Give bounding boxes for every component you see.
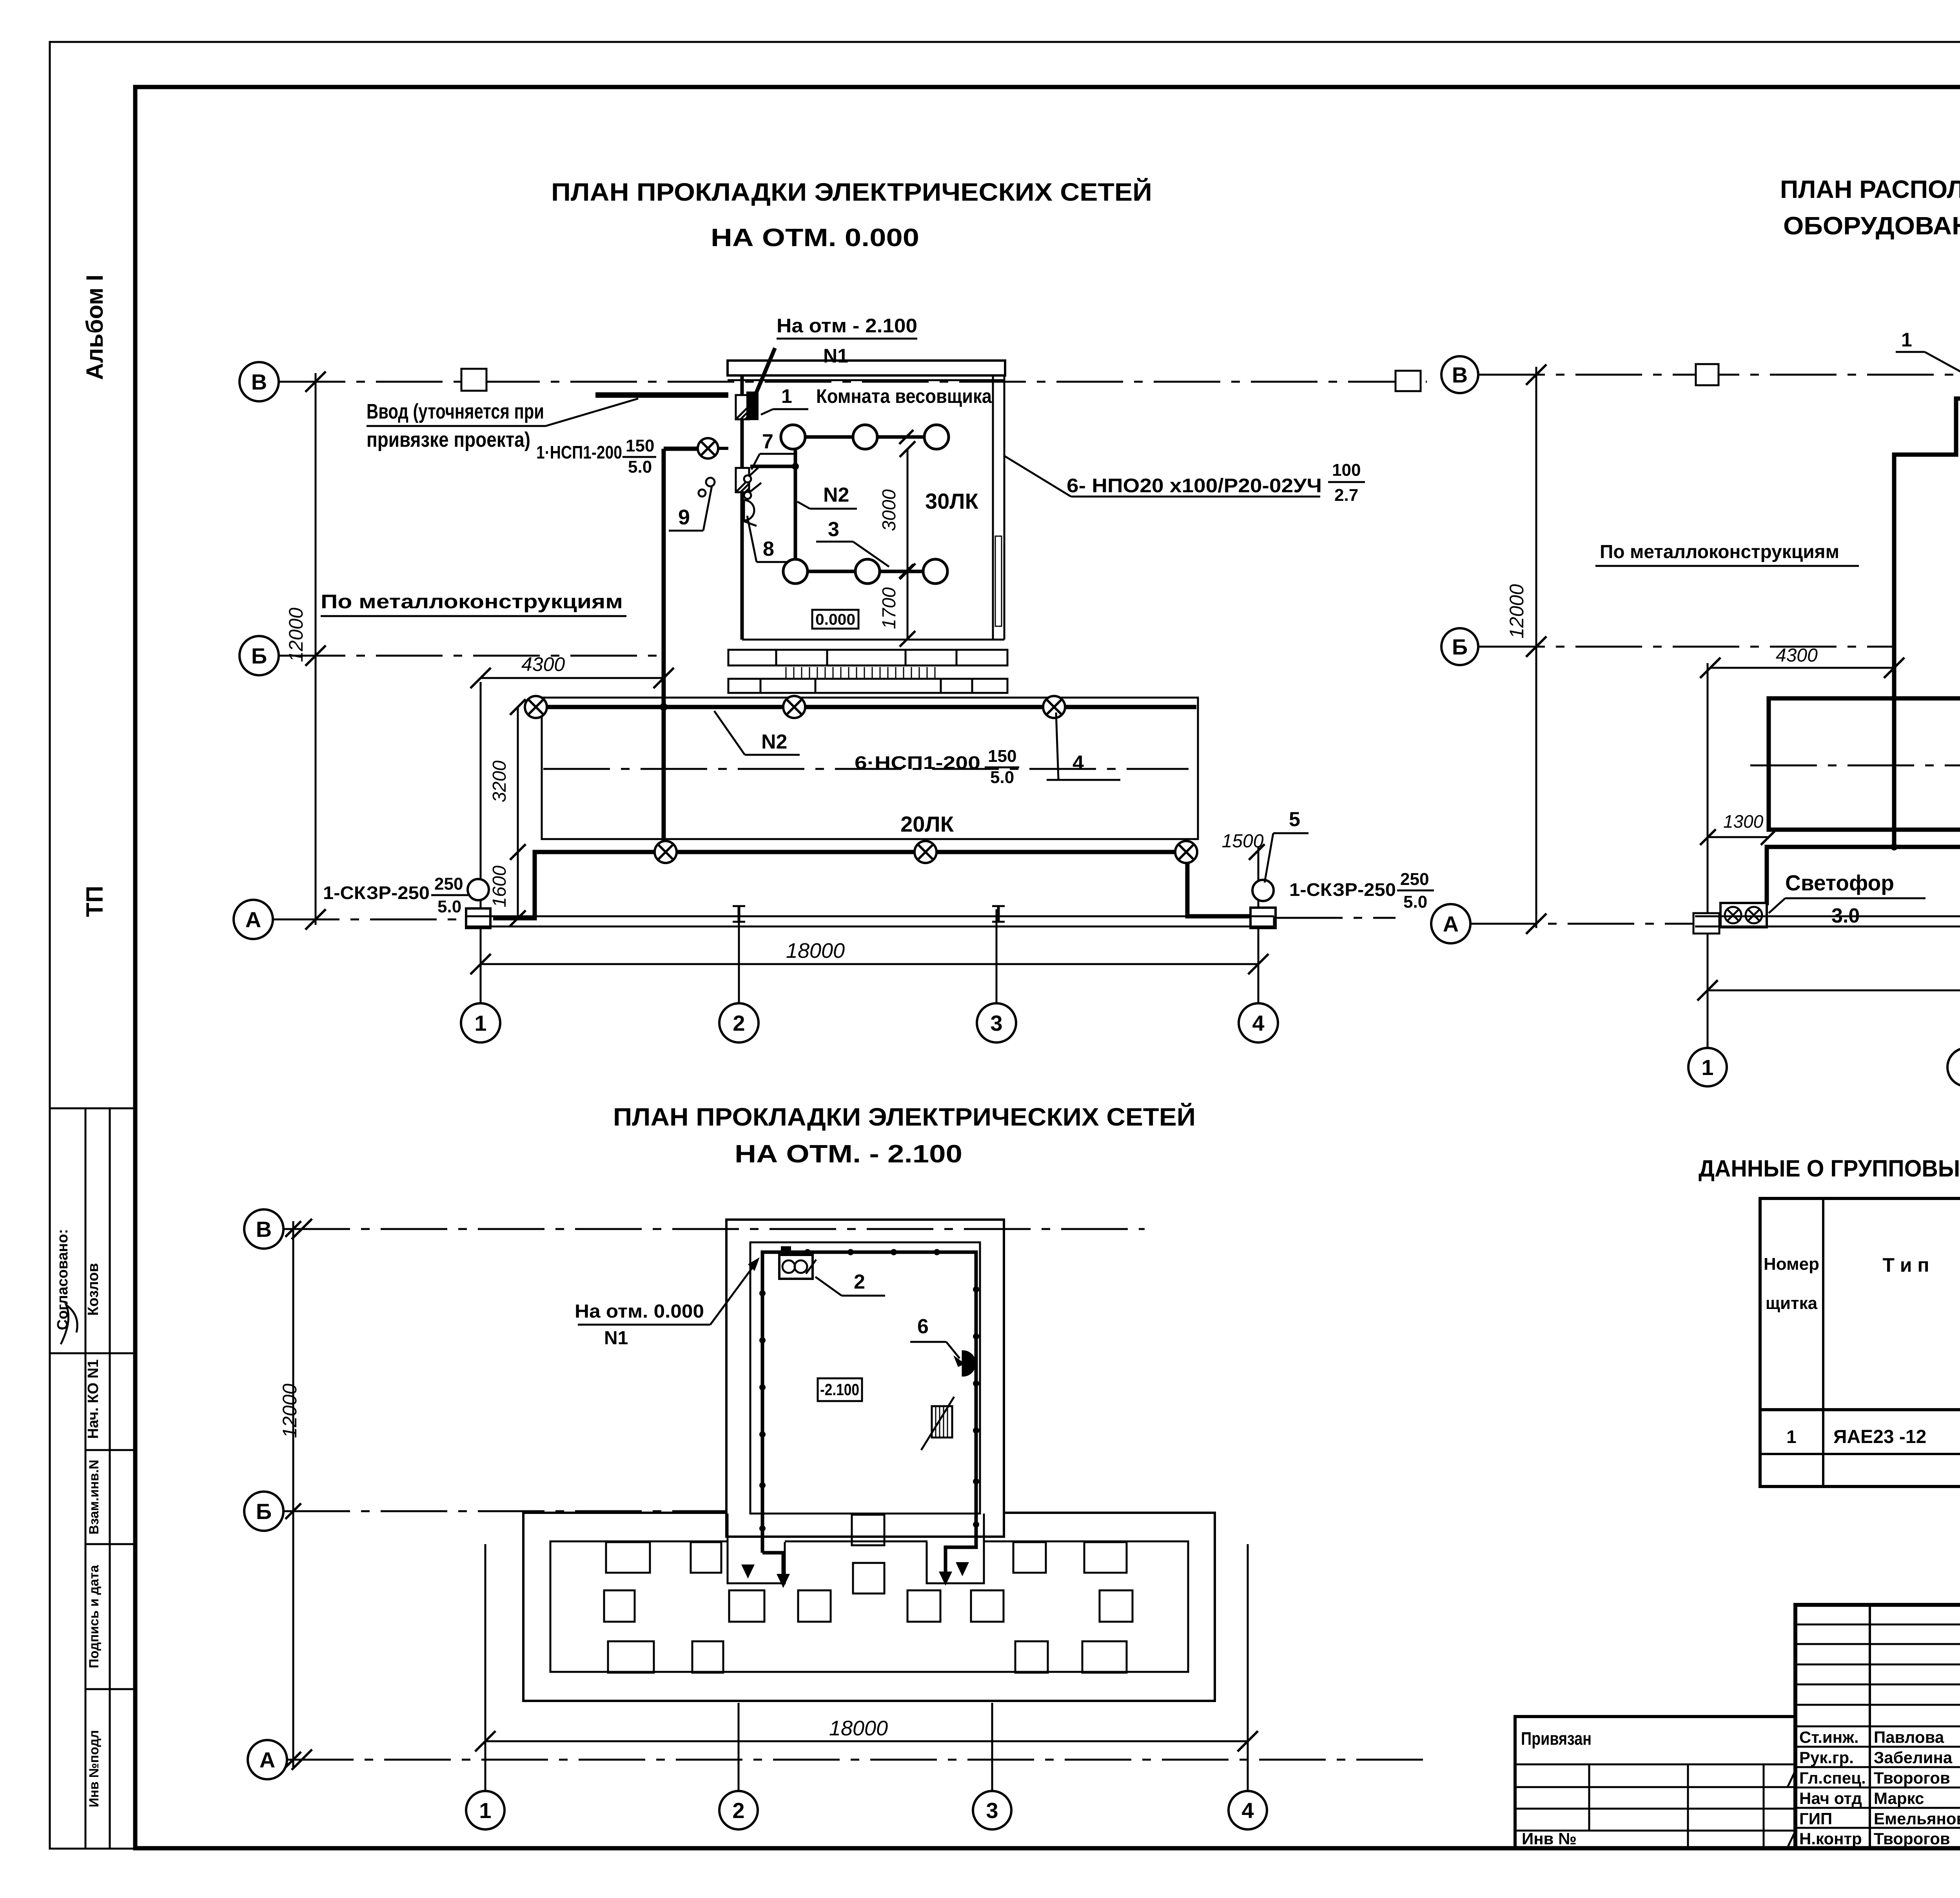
dimension 12000 plan3 bbox=[292, 1221, 294, 1767]
axis A plan2 bbox=[1431, 904, 1470, 943]
svg-text:N2: N2 bbox=[761, 731, 787, 753]
axis B plan1 bbox=[240, 636, 279, 675]
feeder cable riser plan2 bbox=[1894, 399, 1960, 847]
svg-text:1600: 1600 bbox=[489, 865, 510, 907]
column axis 1 plan3 bbox=[485, 1544, 486, 1791]
svg-text:250: 250 bbox=[434, 874, 463, 894]
cable loop wire plan3 bbox=[762, 1252, 976, 1572]
platform wire upper N2 bbox=[536, 705, 1196, 709]
svg-text:12000: 12000 bbox=[279, 1383, 301, 1438]
svg-text:12000: 12000 bbox=[1506, 584, 1528, 638]
level mark 0.000 plan1 bbox=[812, 610, 858, 629]
svg-text:Козлов: Козлов bbox=[85, 1263, 102, 1316]
dimension 3200 bbox=[517, 707, 519, 852]
privyazan box bbox=[1515, 1717, 1795, 1848]
svg-text:1-СКЗР-250: 1-СКЗР-250 bbox=[323, 883, 430, 903]
svg-text:1300: 1300 bbox=[1723, 811, 1764, 832]
svg-text:5.0: 5.0 bbox=[437, 897, 461, 916]
svg-text:150: 150 bbox=[626, 436, 654, 455]
axis B plan2 bbox=[1441, 628, 1478, 665]
svg-text:N1: N1 bbox=[823, 345, 848, 367]
svg-text:4300: 4300 bbox=[1776, 645, 1818, 666]
column axis 4 plan1 bbox=[1258, 847, 1259, 1003]
axis V plan3 bbox=[244, 1209, 283, 1249]
svg-text:2: 2 bbox=[732, 1798, 744, 1823]
svg-text:6- НПО20 х100/Р20-02УЧ: 6- НПО20 х100/Р20-02УЧ bbox=[1067, 475, 1322, 497]
sidebar stamp column bbox=[50, 1108, 135, 1848]
foundation pads row top bbox=[606, 1542, 650, 1573]
SKZR device right bbox=[1252, 880, 1274, 901]
window right wall plan1 bbox=[995, 536, 1002, 626]
pit inner wall plan3 bbox=[550, 1541, 1188, 1672]
svg-text:Забелина: Забелина bbox=[1874, 1748, 1953, 1767]
axis V plan1 bbox=[240, 362, 279, 401]
level mark -2.100 bbox=[818, 1378, 862, 1401]
dimension 1700 room bbox=[907, 571, 909, 639]
column axis 2 plan1 bbox=[738, 909, 740, 1003]
dimension 18000 plan3 bbox=[485, 1740, 1248, 1742]
panel N1 (distribution box) bbox=[746, 392, 759, 420]
axis B plan3 bbox=[244, 1492, 283, 1531]
left notch shaft bbox=[728, 1514, 785, 1583]
dimension 18000 plan1 bbox=[481, 963, 1258, 965]
right notch shaft bbox=[927, 1514, 984, 1583]
foundation pads row bottom bbox=[608, 1641, 654, 1673]
svg-text:6·НСП1-200: 6·НСП1-200 bbox=[855, 752, 980, 773]
rail I-beam symbols plan1 bbox=[738, 906, 740, 922]
svg-text:Н.контр: Н.контр bbox=[1799, 1829, 1862, 1848]
service entry wire (vvod) bbox=[595, 392, 728, 398]
svg-text:N1: N1 bbox=[604, 1328, 628, 1349]
dimension 1600 bbox=[517, 852, 519, 918]
svg-text:В: В bbox=[1452, 363, 1468, 387]
column axis 2 plan3 bbox=[738, 1703, 740, 1791]
lighting box device plan3 bbox=[779, 1255, 813, 1279]
dimension 12000 plan2 bbox=[1535, 367, 1537, 928]
svg-text:18000: 18000 bbox=[786, 939, 845, 963]
svg-text:Маркс: Маркс bbox=[1874, 1789, 1924, 1807]
platform lamps lower bbox=[655, 841, 677, 863]
junction box on axis V plan2 left bbox=[1696, 364, 1719, 385]
svg-text:Подпись и дата: Подпись и дата bbox=[87, 1564, 102, 1668]
svg-text:3: 3 bbox=[986, 1798, 998, 1823]
svg-text:3: 3 bbox=[990, 1011, 1002, 1035]
svg-text:Творогов: Творогов bbox=[1874, 1829, 1950, 1848]
bell symbol bbox=[744, 500, 754, 520]
svg-text:Б: Б bbox=[251, 644, 267, 668]
title block frame bbox=[1795, 1605, 1960, 1848]
svg-text:ГИП: ГИП bbox=[1799, 1809, 1832, 1828]
cable clips bbox=[706, 478, 715, 486]
svg-text:Комната весовщика: Комната весовщика bbox=[816, 385, 992, 407]
svg-text:Творогов: Творогов bbox=[1874, 1769, 1950, 1787]
svg-text:Павлова: Павлова bbox=[1874, 1728, 1944, 1746]
axis A plan3 bbox=[248, 1740, 287, 1779]
svg-text:По металлоконструкциям: По металлоконструкциям bbox=[321, 591, 623, 613]
wall hatch blocks plan1 bbox=[736, 395, 749, 419]
svg-text:1: 1 bbox=[781, 385, 792, 407]
svg-text:Нач. КО N1: Нач. КО N1 bbox=[85, 1360, 102, 1439]
svg-text:Светофор: Светофор bbox=[1785, 870, 1894, 895]
bell on wall plan3 bbox=[963, 1351, 975, 1376]
svg-text:НА ОТМ. 0.000: НА ОТМ. 0.000 bbox=[711, 223, 919, 252]
sidebar signature bbox=[61, 1305, 77, 1344]
svg-text:В: В bbox=[256, 1217, 272, 1242]
svg-text:ПЛАН ПРОКЛАДКИ ЭЛЕКТРИЧЕСКИХ: ПЛАН ПРОКЛАДКИ ЭЛЕКТРИЧЕСКИХ СЕТЕЙ bbox=[551, 178, 1152, 206]
SKZR device left bbox=[468, 879, 489, 900]
svg-text:По металлоконструкциям: По металлоконструкциям bbox=[1600, 542, 1839, 562]
dimension 4300 plan1 bbox=[481, 677, 664, 679]
svg-text:1500: 1500 bbox=[1222, 831, 1264, 852]
svg-text:3000: 3000 bbox=[879, 489, 900, 531]
svg-text:Б: Б bbox=[256, 1499, 272, 1524]
svg-text:А: А bbox=[1443, 912, 1459, 936]
svg-text:2: 2 bbox=[733, 1011, 745, 1035]
svg-text:4300: 4300 bbox=[521, 653, 565, 675]
platform edge lines plan1 bbox=[466, 915, 1274, 917]
svg-text:1: 1 bbox=[1701, 1055, 1713, 1080]
svg-text:Нач отд: Нач отд bbox=[1799, 1789, 1862, 1807]
junction box on axis V left bbox=[461, 369, 486, 391]
column axis 4 plan3 bbox=[1247, 1544, 1249, 1791]
column axis 3 plan3 bbox=[991, 1703, 993, 1791]
svg-text:0.000: 0.000 bbox=[815, 611, 855, 628]
svg-text:1: 1 bbox=[1901, 329, 1912, 351]
svg-text:12000: 12000 bbox=[285, 607, 307, 662]
platform feeder wire plan2 bbox=[1767, 847, 1960, 907]
svg-text:щитка: щитка bbox=[1766, 1294, 1818, 1313]
svg-text:5: 5 bbox=[1289, 808, 1300, 831]
svg-text:2.7: 2.7 bbox=[1334, 486, 1358, 505]
svg-text:100: 100 bbox=[1332, 460, 1361, 480]
svg-text:Инв №подл: Инв №подл bbox=[87, 1730, 102, 1807]
dimension 4300 plan2 bbox=[1710, 667, 1894, 669]
wire to outdoor lamp 9 bbox=[664, 447, 698, 451]
wire riser N2 vertical bbox=[662, 449, 666, 852]
cable clips plan3 bbox=[804, 1249, 811, 1255]
svg-text:Гл.спец.: Гл.спец. bbox=[1799, 1769, 1866, 1787]
svg-text:9: 9 bbox=[678, 506, 690, 529]
svg-text:ПЛАН ПРОКЛАДКИ ЭЛЕКТРИЧЕСКИХ: ПЛАН ПРОКЛАДКИ ЭЛЕКТРИЧЕСКИХ СЕТЕЙ bbox=[613, 1102, 1196, 1131]
platform outline plan2 bbox=[1769, 698, 1960, 830]
svg-text:5.0: 5.0 bbox=[628, 457, 652, 477]
traffic light box left bbox=[1720, 903, 1767, 927]
platform edge lines plan2 bbox=[1695, 915, 1960, 917]
svg-text:Альбом I: Альбом I bbox=[82, 275, 108, 380]
svg-text:1-СКЗР-250: 1-СКЗР-250 bbox=[1289, 879, 1396, 900]
svg-text:Взам.инв.N: Взам.инв.N bbox=[87, 1460, 102, 1535]
svg-text:Т и п: Т и п bbox=[1882, 1254, 1929, 1276]
svg-text:3200: 3200 bbox=[489, 760, 510, 802]
basement room outer wall bbox=[726, 1220, 1004, 1537]
svg-text:5.0: 5.0 bbox=[990, 768, 1014, 787]
svg-text:А: А bbox=[245, 907, 261, 932]
svg-text:А: А bbox=[260, 1748, 275, 1772]
svg-text:20ЛК: 20ЛК bbox=[900, 812, 954, 836]
svg-text:Рук.гр.: Рук.гр. bbox=[1799, 1748, 1854, 1767]
axis V plan2 bbox=[1441, 356, 1478, 393]
svg-text:ДАННЫЕ О ГРУППОВЫХ ЩИТКАХ С АВ: ДАННЫЕ О ГРУППОВЫХ ЩИТКАХ С АВТОМАТИЧЕСК… bbox=[1699, 1155, 1960, 1182]
dimension 18000 plan2 bbox=[1708, 990, 1960, 992]
svg-text:4: 4 bbox=[1241, 1798, 1254, 1823]
axis A plan1 bbox=[234, 900, 273, 939]
riser to -2.100 (diagonal leader) bbox=[756, 348, 775, 394]
platform outline plan1 bbox=[542, 698, 1198, 839]
svg-text:150: 150 bbox=[988, 747, 1016, 766]
svg-text:1: 1 bbox=[479, 1798, 491, 1823]
room floor and porch plan1 bbox=[742, 639, 1004, 641]
svg-text:ПЛАН РАСПОЛОЖЕНИЯ ЭЛЕКТРИЧЕС: ПЛАН РАСПОЛОЖЕНИЯ ЭЛЕКТРИЧЕСКОГО bbox=[1780, 175, 1960, 203]
junction box on axis V right bbox=[1396, 371, 1421, 391]
column axis 1 plan1 bbox=[480, 682, 482, 1003]
svg-text:НА ОТМ. - 2.100: НА ОТМ. - 2.100 bbox=[735, 1140, 962, 1168]
svg-text:5.0: 5.0 bbox=[1403, 892, 1427, 912]
foundation pads center bbox=[852, 1515, 884, 1545]
weigher room walls plan1 bbox=[728, 361, 1005, 375]
svg-text:4: 4 bbox=[1073, 752, 1084, 774]
pit outer wall plan3 bbox=[523, 1513, 1215, 1701]
platform lamps upper bbox=[525, 696, 547, 718]
svg-text:1: 1 bbox=[1786, 1427, 1797, 1447]
column axis 3 plan1 bbox=[996, 909, 998, 1003]
svg-text:Привязан: Привязан bbox=[1521, 1728, 1592, 1749]
outdoor lamp near room bbox=[698, 438, 718, 459]
svg-text:На отм. 0.000: На отм. 0.000 bbox=[575, 1301, 704, 1322]
svg-text:Ввод (уточняется при: Ввод (уточняется при bbox=[367, 400, 544, 423]
svg-text:ОБОРУДОВАНИЯ НА ОТМ. 0.000: ОБОРУДОВАНИЯ НА ОТМ. 0.000 bbox=[1783, 212, 1960, 240]
svg-text:N2: N2 bbox=[823, 484, 849, 506]
stand box left bbox=[1693, 913, 1719, 934]
svg-text:6: 6 bbox=[917, 1315, 929, 1338]
svg-text:1700: 1700 bbox=[879, 587, 900, 629]
svg-text:4: 4 bbox=[1252, 1011, 1264, 1035]
svg-text:1: 1 bbox=[474, 1011, 486, 1035]
basement room inner wall bbox=[750, 1242, 980, 1514]
svg-text:Ст.инж.: Ст.инж. bbox=[1799, 1728, 1859, 1746]
dimension 12000 plan1 bbox=[315, 373, 317, 925]
svg-text:30ЛК: 30ЛК bbox=[925, 489, 979, 513]
svg-text:-2.100: -2.100 bbox=[820, 1380, 859, 1399]
ladder hatch plan3 bbox=[932, 1406, 952, 1438]
svg-text:Номер: Номер bbox=[1764, 1254, 1819, 1274]
dimension 1300 bbox=[1708, 836, 1769, 838]
svg-text:250: 250 bbox=[1400, 870, 1429, 889]
svg-text:привязке проекта): привязке проекта) bbox=[367, 428, 530, 451]
room lamps group 30LK bbox=[781, 425, 805, 449]
platform wire lower bbox=[493, 852, 1253, 918]
svg-text:В: В bbox=[251, 370, 267, 394]
svg-text:Инв №: Инв № bbox=[1522, 1829, 1577, 1848]
switchboard table grid bbox=[1760, 1198, 1960, 1486]
svg-text:2: 2 bbox=[854, 1271, 865, 1293]
foundation pads row middle bbox=[604, 1590, 635, 1622]
svg-text:Емельянов: Емельянов bbox=[1874, 1809, 1960, 1828]
svg-text:ЯАЕ23 -12: ЯАЕ23 -12 bbox=[1833, 1427, 1926, 1447]
switch symbols on wall bbox=[744, 475, 751, 482]
room lamp wires bbox=[750, 437, 924, 571]
svg-text:18000: 18000 bbox=[829, 1717, 888, 1740]
svg-text:7: 7 bbox=[762, 430, 773, 453]
svg-text:1·НСП1-200: 1·НСП1-200 bbox=[536, 442, 622, 462]
svg-text:На отм - 2.100: На отм - 2.100 bbox=[777, 315, 917, 337]
svg-text:Б: Б bbox=[1452, 634, 1468, 659]
dimension 3000 room bbox=[907, 449, 909, 571]
svg-text:3: 3 bbox=[828, 518, 839, 541]
svg-text:8: 8 bbox=[763, 538, 774, 560]
column axis 1 plan2 bbox=[1707, 663, 1709, 1048]
svg-text:ТП: ТП bbox=[82, 886, 108, 917]
